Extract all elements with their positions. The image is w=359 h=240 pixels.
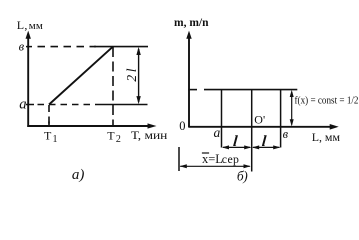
svg-text:L, мм: L, мм: [312, 130, 341, 144]
diagonal line from (T1,a) to (T2,в): [49, 47, 113, 105]
svg-text:L,мм: L,мм: [17, 18, 43, 32]
y tick at a level: [26, 104, 34, 106]
f(x) height dimension arrow: [290, 90, 294, 127]
svg-text:б): б): [237, 168, 248, 183]
right plot x-axis (L axis): [188, 124, 338, 130]
solid extension line at a level: [95, 104, 148, 106]
dashed line at в level: [38, 46, 97, 48]
svg-text:2l: 2l: [124, 66, 139, 82]
y tick at в level: [26, 46, 32, 48]
left plot y-axis (L axis): [26, 31, 31, 127]
svg-text:0: 0: [179, 119, 185, 133]
top horizontal line f(x) const level segment 1: [188, 89, 197, 91]
right plot y-axis (m axis): [186, 31, 191, 127]
right l dimension arrow between O' and в: [252, 145, 280, 149]
dashed line at a level: [38, 104, 96, 106]
svg-text:Т, мин: Т, мин: [131, 128, 168, 142]
svg-text:а): а): [72, 167, 85, 183]
top horizontal line f(x) const level segment 2: [204, 89, 297, 91]
svg-text:T1: T1: [44, 128, 58, 145]
svg-text:x=L: x=L: [202, 152, 223, 166]
label x̄ = Lсер: [202, 152, 239, 166]
vertical line at point a: [221, 90, 223, 148]
svg-text:O': O': [254, 112, 265, 126]
svg-text:в: в: [19, 40, 25, 54]
extension tick for x̄ dimension: [178, 147, 180, 171]
vertical line at point в: [280, 90, 282, 148]
solid extension line at в level: [94, 46, 148, 48]
vertical line at point O': [251, 90, 253, 172]
svg-text:a: a: [19, 97, 26, 113]
svg-text:f(x) = const = 1/2l: f(x) = const = 1/2l: [295, 95, 359, 107]
svg-text:сер: сер: [222, 152, 239, 166]
left l dimension arrow between а and O': [222, 145, 252, 149]
svg-text:T2: T2: [107, 128, 121, 145]
dashed vertical at T2: [112, 47, 114, 126]
svg-text:в: в: [283, 127, 289, 141]
x̄ dimension arrow: [180, 164, 251, 168]
left plot x-axis (T axis): [27, 123, 156, 128]
dimension line 2l with arrows: [136, 47, 140, 104]
dashed vertical at T1: [48, 105, 50, 126]
svg-text:m, m/n: m, m/n: [174, 17, 209, 29]
x tick at T1: [48, 122, 50, 127]
svg-text:а: а: [214, 125, 221, 140]
